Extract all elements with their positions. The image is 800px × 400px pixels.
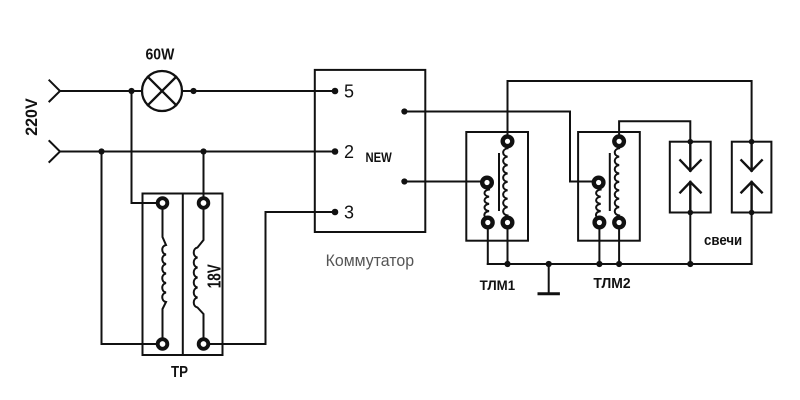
svg-text:3: 3 [344, 202, 354, 222]
svg-text:18V: 18V [205, 264, 225, 288]
svg-text:Коммутатор: Коммутатор [326, 252, 415, 270]
svg-text:ТЛМ1: ТЛМ1 [480, 277, 516, 293]
svg-text:свечи: свечи [704, 232, 742, 249]
svg-text:ТР: ТР [171, 364, 188, 381]
svg-text:ТЛМ2: ТЛМ2 [593, 275, 630, 292]
svg-text:60W: 60W [146, 46, 176, 63]
svg-text:2: 2 [344, 142, 354, 162]
svg-text:220V: 220V [22, 98, 41, 136]
svg-text:NEW: NEW [366, 149, 393, 165]
svg-text:5: 5 [344, 81, 354, 101]
